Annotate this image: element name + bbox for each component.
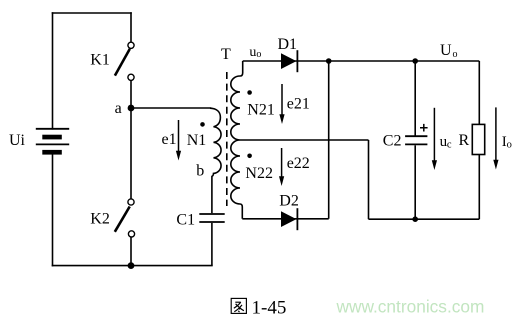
svg-text:c: c: [447, 140, 452, 151]
resistor R: [472, 124, 484, 154]
svg-text:T: T: [221, 46, 231, 63]
diode D2: [281, 211, 296, 227]
svg-text:N21: N21: [247, 101, 275, 118]
battery Ui thick bar 2: [42, 150, 62, 155]
polarity dot N21: [247, 90, 252, 95]
switch K1 bottom contact circle: [128, 74, 134, 80]
svg-text:U: U: [440, 42, 452, 59]
wire top rail: [243, 60, 480, 62]
wire node a to primary coil: [131, 107, 211, 109]
junction dot D1 output: [326, 58, 332, 64]
wire load bottom rail: [369, 218, 480, 220]
junction dot C2 top: [412, 58, 418, 64]
capacitor C2 wire bottom: [414, 145, 416, 219]
svg-text:e1: e1: [162, 131, 177, 148]
caption glyph 图: [231, 298, 246, 313]
wire D2 bottom horizontal: [242, 218, 328, 220]
svg-text:e21: e21: [287, 95, 310, 112]
wire center tap: [240, 139, 369, 141]
svg-text:C1: C1: [176, 211, 195, 228]
svg-text:o: o: [256, 49, 261, 60]
wire C1 bottom: [211, 223, 213, 266]
svg-text:K2: K2: [90, 211, 110, 228]
wire right rail top: [478, 61, 480, 124]
junction dot C2 bottom: [412, 216, 418, 222]
svg-text:e22: e22: [287, 155, 310, 172]
wire K2 bottom to bottom rail: [130, 237, 132, 265]
diode D1: [281, 53, 296, 69]
junction dot bottom rail: [128, 262, 135, 269]
svg-text:C2: C2: [383, 132, 402, 149]
switch K2 blade: [115, 207, 130, 232]
svg-text:Ui: Ui: [9, 132, 26, 149]
arrow e1: [178, 120, 180, 151]
svg-text:N22: N22: [245, 165, 273, 182]
svg-text:1-45: 1-45: [252, 298, 287, 319]
switch K2 bottom contact circle: [128, 231, 134, 237]
node a junction dot: [128, 105, 135, 112]
transformer core dashed line: [226, 72, 228, 206]
battery Ui plate long top: [36, 128, 69, 130]
switch K1 top contact circle: [128, 42, 134, 48]
polarity dot N1: [200, 122, 205, 127]
capacitor C1: [199, 213, 224, 215]
svg-text:N1: N1: [187, 132, 207, 149]
svg-text:www.cntronics.com: www.cntronics.com: [336, 296, 485, 316]
transformer secondary winding N21+N22: [231, 61, 243, 219]
svg-text:a: a: [115, 100, 122, 117]
wire right rail bottom: [478, 155, 480, 220]
wire K1 bottom to node a to K2 top: [130, 81, 132, 199]
svg-text:o: o: [453, 49, 458, 60]
svg-text:D2: D2: [279, 192, 299, 209]
arrow uc: [433, 108, 435, 161]
battery Ui plate long bottom: [36, 143, 69, 145]
svg-text:u: u: [249, 45, 256, 60]
transformer T primary winding N1: [210, 108, 221, 213]
wire left rail upper (to battery): [52, 13, 54, 129]
polarity dot N22: [247, 154, 252, 159]
svg-text:b: b: [196, 163, 204, 180]
arrow Io: [495, 107, 497, 160]
plus sign C2: [420, 124, 428, 132]
capacitor C2 wire top: [414, 61, 416, 136]
capacitor C2 plates: [405, 135, 427, 137]
wire D2 output vertical: [328, 61, 330, 219]
arrow e21: [281, 84, 283, 115]
wire center tap down: [368, 140, 370, 219]
svg-text:D1: D1: [278, 36, 298, 53]
svg-text:o: o: [507, 140, 512, 151]
battery Ui thick bar 1: [42, 135, 62, 140]
wire top-left horizontal: [53, 12, 132, 14]
svg-text:R: R: [459, 132, 470, 149]
switch K2 top contact circle: [128, 199, 134, 205]
wire K1 top feed: [130, 13, 132, 42]
wire bottom rail left: [53, 265, 212, 267]
wire left rail lower (from battery): [52, 155, 54, 266]
switch K1 blade: [115, 49, 130, 76]
arrow e22: [281, 148, 283, 177]
svg-text:K1: K1: [90, 52, 110, 69]
